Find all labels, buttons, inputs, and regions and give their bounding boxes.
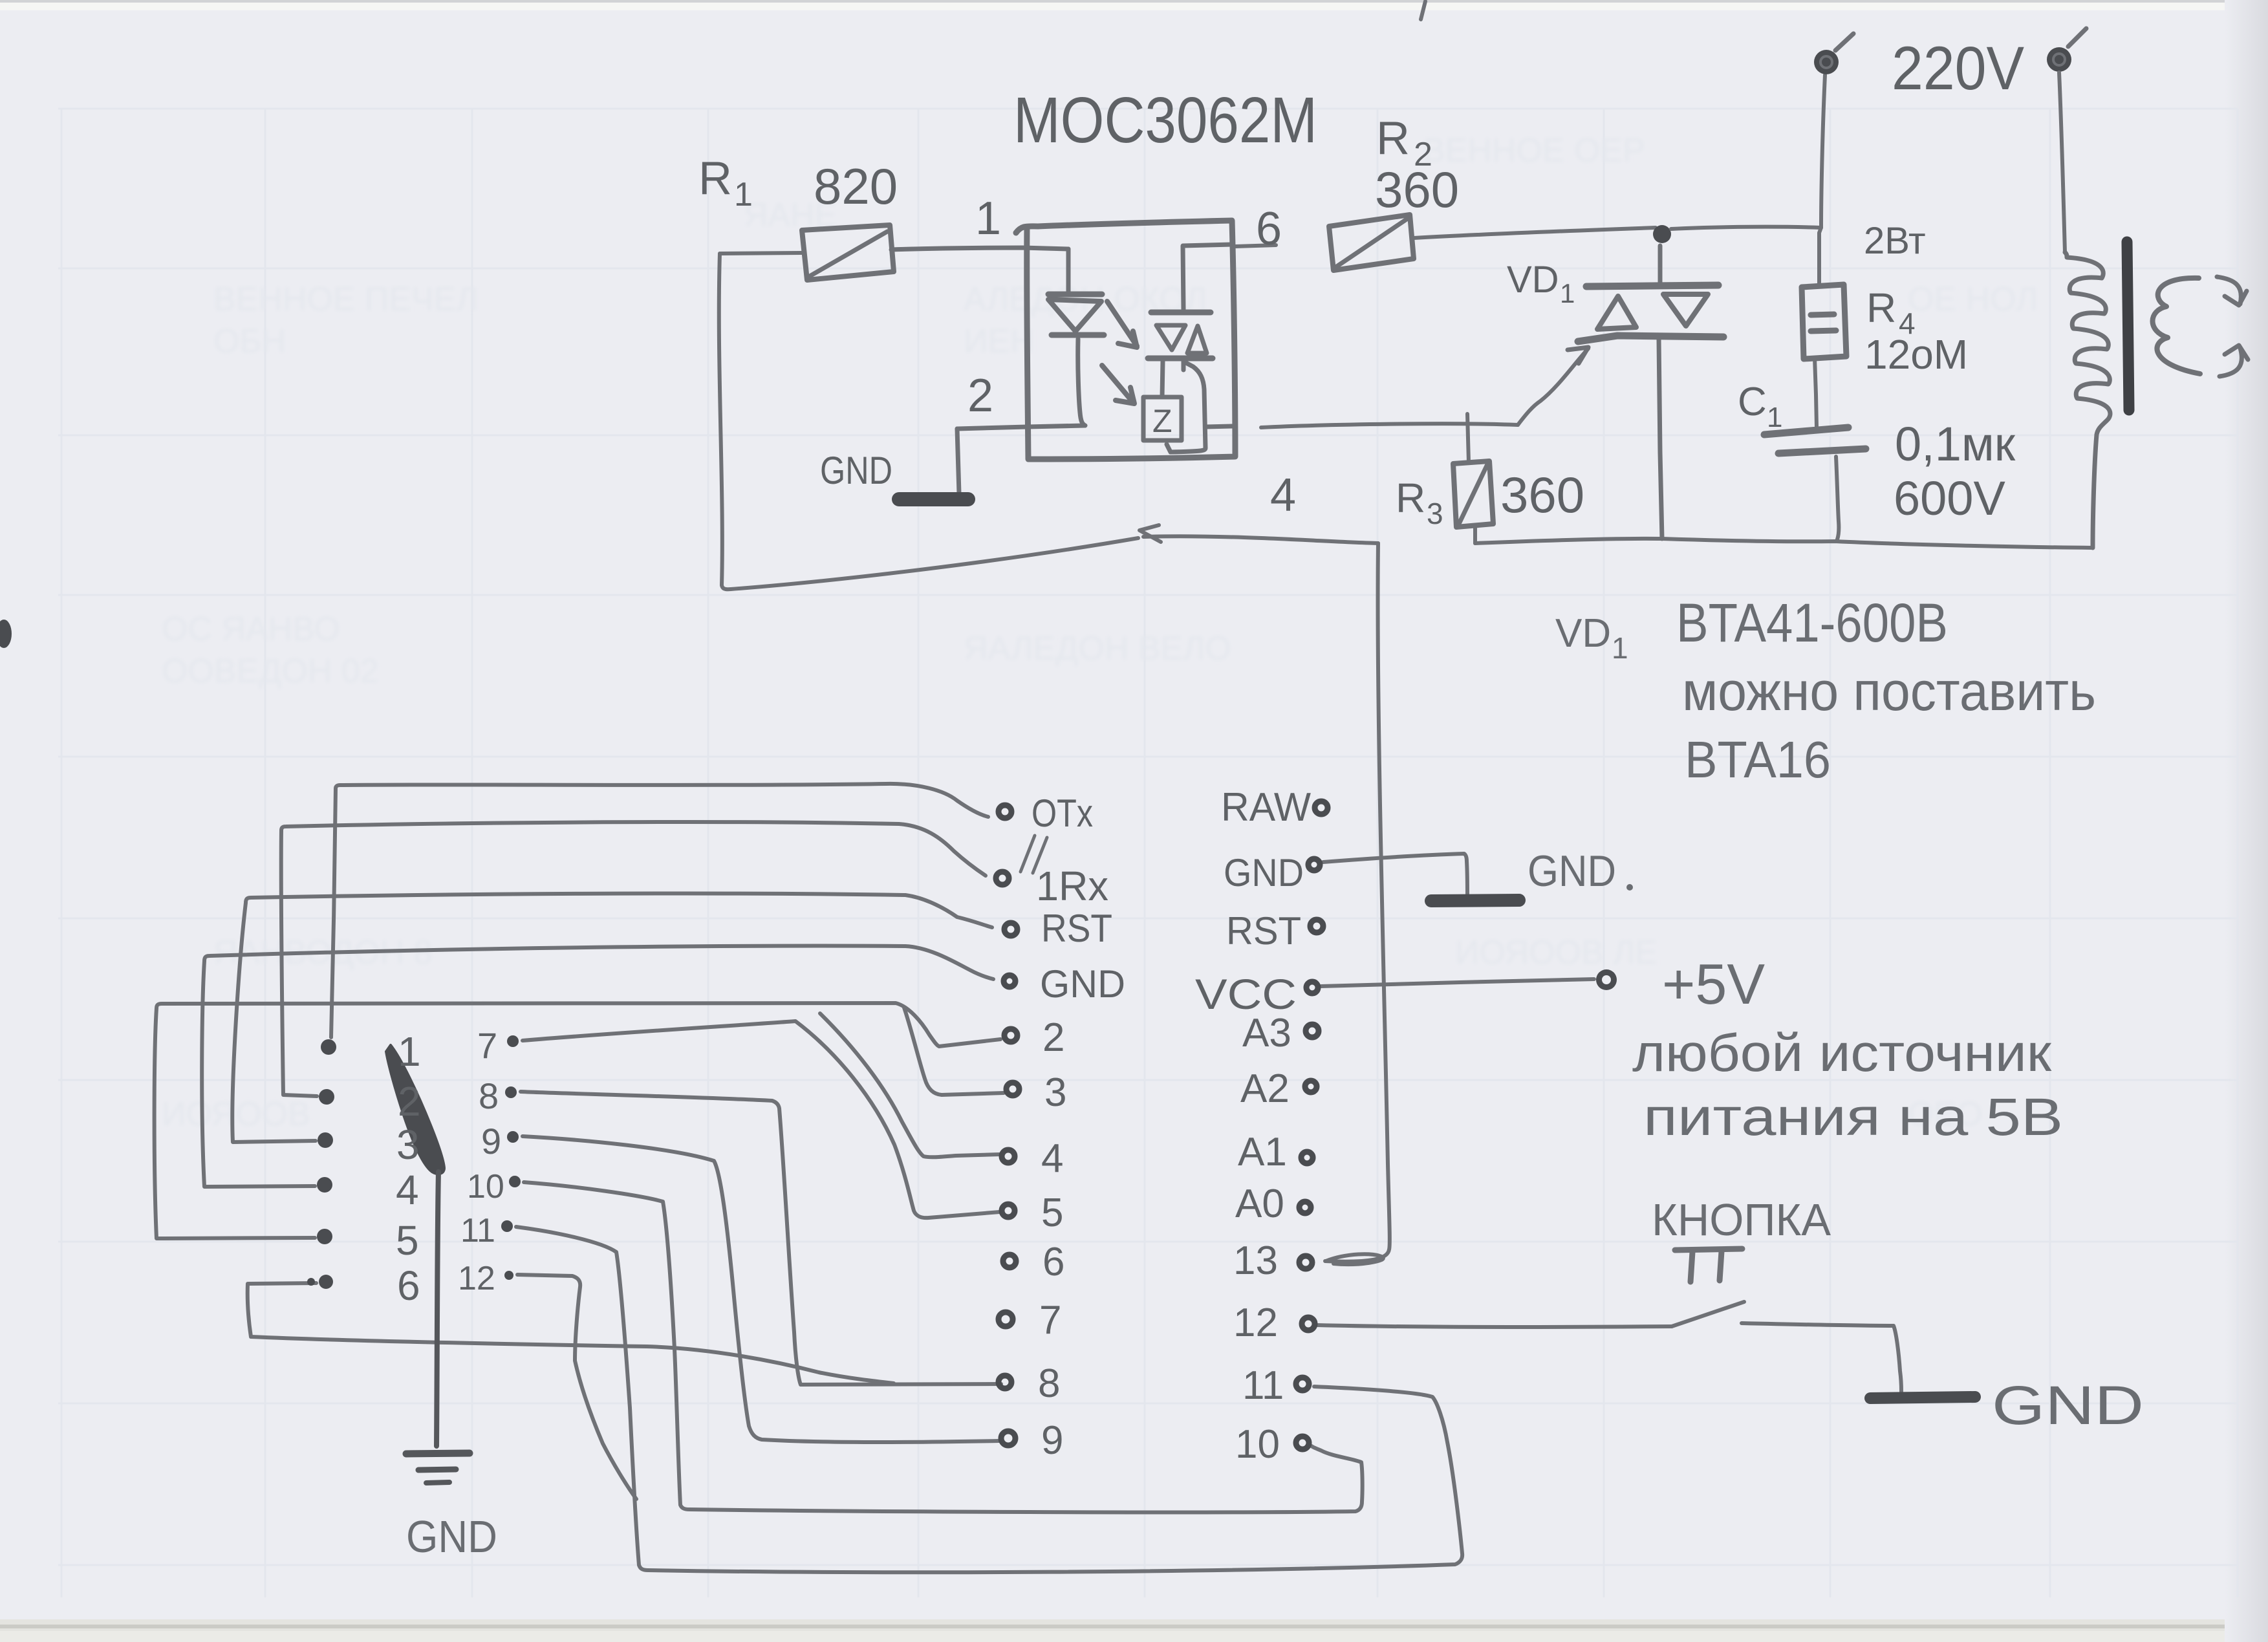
svg-text:GND: GND [1992, 1375, 2144, 1436]
svg-text:12: 12 [1233, 1301, 1278, 1345]
svg-text:11: 11 [1242, 1363, 1284, 1408]
svg-text:820: 820 [814, 158, 898, 215]
svg-text:GND: GND [406, 1511, 497, 1562]
svg-text:13: 13 [1233, 1238, 1278, 1283]
svg-text:6: 6 [1042, 1240, 1064, 1284]
svg-text:4: 4 [396, 1167, 419, 1213]
svg-text:можно поставить: можно поставить [1682, 661, 2096, 722]
svg-text:КНОПКА: КНОПКА [1652, 1194, 1831, 1245]
svg-text:8: 8 [479, 1075, 499, 1116]
svg-text:1: 1 [1560, 278, 1575, 308]
svg-text:A1: A1 [1238, 1130, 1287, 1174]
svg-text:1Rx: 1Rx [1036, 863, 1108, 909]
svg-text:ЯАЛЕДОН ВЕЛО: ЯАЛЕДОН ВЕЛО [964, 630, 1231, 667]
svg-text:ОЕ НОЛ: ОЕ НОЛ [1908, 281, 2038, 318]
svg-text:ОС ЯАНВО: ОС ЯАНВО [162, 610, 340, 648]
svg-text:BTA41-600B: BTA41-600B [1676, 592, 1948, 653]
svg-text:RST: RST [1041, 907, 1112, 950]
svg-text:4: 4 [1041, 1136, 1063, 1181]
svg-text:3: 3 [396, 1121, 420, 1168]
svg-text:7: 7 [1039, 1298, 1061, 1343]
svg-text:OTx: OTx [1031, 792, 1093, 835]
svg-text:3: 3 [1044, 1070, 1066, 1115]
svg-text:360: 360 [1375, 161, 1459, 218]
svg-text:ИЕН: ИЕН [964, 323, 1035, 360]
svg-text:6: 6 [1256, 203, 1282, 255]
svg-text:BTA16: BTA16 [1685, 731, 1831, 788]
svg-text:7: 7 [477, 1025, 497, 1066]
svg-text:1: 1 [398, 1028, 421, 1075]
svg-text:10: 10 [467, 1168, 504, 1205]
svg-text:Z: Z [1152, 403, 1172, 439]
svg-text:8: 8 [1038, 1361, 1060, 1406]
svg-text:6: 6 [397, 1262, 420, 1309]
svg-text:1: 1 [1767, 402, 1782, 433]
svg-text:9: 9 [481, 1121, 501, 1161]
svg-text:VD: VD [1507, 259, 1559, 301]
svg-text:12оМ: 12оМ [1864, 331, 1968, 378]
svg-text:1: 1 [975, 193, 1001, 244]
svg-text:GND: GND [1040, 962, 1125, 1006]
svg-text:RAW: RAW [1221, 785, 1311, 830]
svg-text:11: 11 [460, 1212, 495, 1249]
svg-text:A0: A0 [1235, 1182, 1284, 1226]
svg-text:+5V: +5V [1662, 952, 1765, 1016]
svg-text:ИОЯООВ ЛЕ: ИОЯООВ ЛЕ [1455, 934, 1658, 971]
svg-text:2Вт: 2Вт [1864, 220, 1926, 262]
svg-text:R: R [1866, 285, 1896, 331]
svg-text:любой источник: любой источник [1632, 1024, 2052, 1083]
svg-text:RST: RST [1226, 909, 1301, 953]
svg-text:9: 9 [1041, 1418, 1063, 1463]
svg-text:1: 1 [734, 176, 753, 213]
svg-text:A3: A3 [1242, 1011, 1291, 1055]
svg-text:MOC3062M: MOC3062M [1013, 84, 1317, 157]
svg-text:360: 360 [1500, 466, 1584, 523]
svg-text:питания на 5В: питания на 5В [1643, 1088, 2063, 1147]
svg-text:5: 5 [396, 1217, 419, 1264]
svg-text:ВЕННОЕ ПЕЧЕЛ: ВЕННОЕ ПЕЧЕЛ [213, 281, 479, 318]
svg-text:GND: GND [1528, 847, 1616, 896]
svg-text:VD: VD [1555, 611, 1611, 656]
svg-text:0,1мк: 0,1мк [1895, 417, 2016, 471]
svg-text:GND: GND [1224, 851, 1304, 894]
svg-text:R: R [1396, 475, 1425, 521]
svg-text:4: 4 [1270, 470, 1296, 521]
svg-text:5: 5 [1041, 1191, 1063, 1235]
svg-text:A2: A2 [1240, 1066, 1290, 1111]
svg-text:2: 2 [1042, 1015, 1064, 1060]
svg-text:ИОЯООВ: ИОЯООВ [162, 1096, 310, 1133]
svg-text:R: R [698, 153, 732, 204]
svg-text:12: 12 [458, 1260, 495, 1297]
svg-text:ООВЕДОН 02: ООВЕДОН 02 [162, 653, 379, 690]
svg-text:2: 2 [398, 1078, 421, 1125]
svg-text:1: 1 [1612, 631, 1628, 665]
svg-text:GND: GND [820, 449, 892, 492]
svg-text:220V: 220V [1892, 34, 2024, 103]
svg-text:10: 10 [1235, 1422, 1280, 1467]
svg-text:2: 2 [967, 370, 993, 422]
svg-text:C: C [1738, 380, 1767, 424]
svg-text:3: 3 [1427, 497, 1443, 530]
svg-text:ОБН: ОБН [213, 323, 286, 360]
svg-text:R: R [1376, 113, 1410, 164]
svg-text:600V: 600V [1894, 471, 2005, 525]
